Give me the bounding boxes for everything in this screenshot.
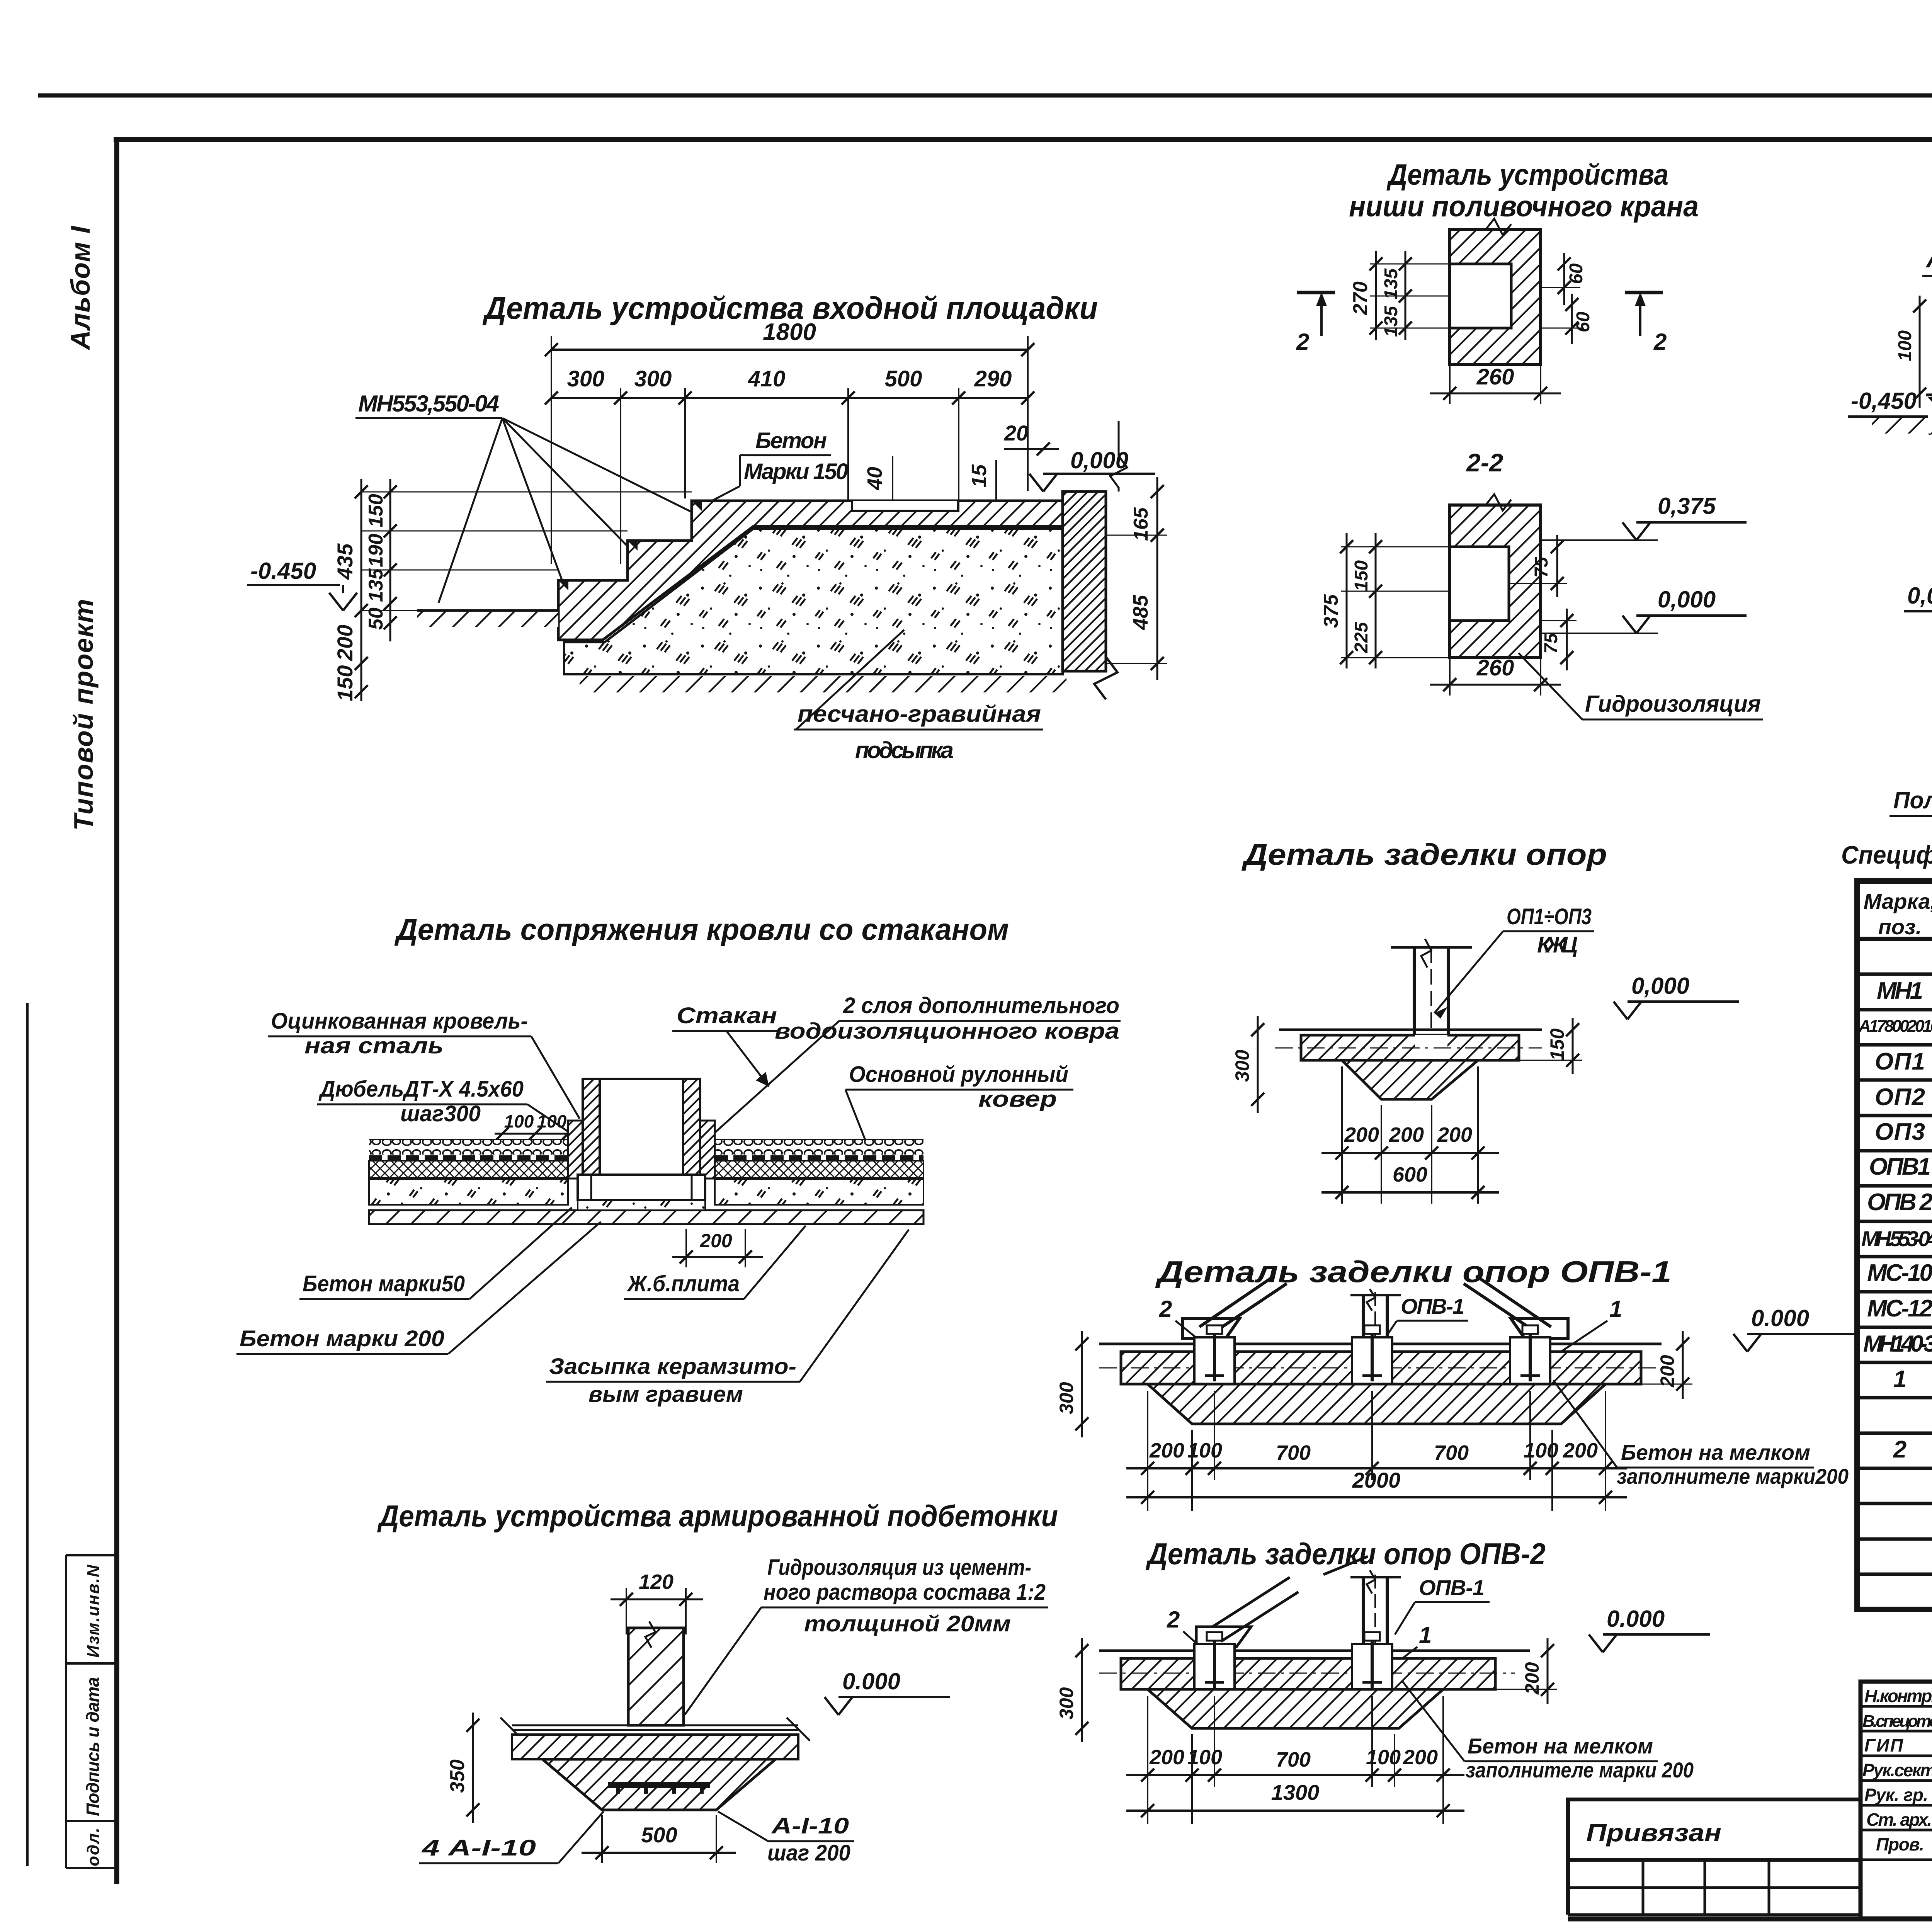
wall column (hatched) xyxy=(1063,492,1106,671)
level 0,000 xyxy=(1541,587,1747,633)
svg-text:350: 350 xyxy=(446,1759,469,1793)
svg-text:150: 150 xyxy=(1546,1028,1568,1061)
table grid xyxy=(1857,881,1932,1609)
svg-text:ДюбельДТ-Х 4.5х60: ДюбельДТ-Х 4.5х60 xyxy=(318,1077,524,1102)
svg-text:1: 1 xyxy=(1609,1296,1622,1322)
svg-text:Деталь заделки опор ОПВ-1: Деталь заделки опор ОПВ-1 xyxy=(1155,1255,1672,1289)
svg-text:1300: 1300 xyxy=(1271,1780,1320,1804)
label concrete grade 150 xyxy=(709,428,848,502)
plan right dims 60 60 xyxy=(1541,253,1594,344)
svg-text:ОПВ1: ОПВ1 xyxy=(1869,1153,1931,1180)
svg-text:-0,450: -0,450 xyxy=(1851,388,1917,414)
dim 300 left xyxy=(1056,1638,1088,1742)
slab band xyxy=(1121,1658,1495,1689)
bottom dim chain 200 100 700 100 200 xyxy=(1126,1696,1464,1824)
svg-text:МН553,550-04: МН553,550-04 xyxy=(358,391,499,417)
svg-text:ОПВ-1: ОПВ-1 xyxy=(1419,1575,1485,1600)
foundation trapezoid xyxy=(1148,1689,1443,1728)
svg-text:Ж.б.плита: Ж.б.плита xyxy=(626,1271,740,1296)
bottom dims 200 200 200 / 600 xyxy=(1321,1066,1499,1204)
dowel label xyxy=(317,1077,578,1138)
plan bottom dim 260 xyxy=(1430,364,1561,404)
svg-text:435: 435 xyxy=(333,543,357,580)
svg-text:2-2: 2-2 xyxy=(1466,448,1503,477)
niche plan: hatched wall block xyxy=(1450,230,1541,365)
svg-text:Бетон марки 200: Бетон марки 200 xyxy=(240,1326,444,1351)
label MN553,550-04 with leaders xyxy=(355,391,696,603)
waterproofing label xyxy=(1519,653,1763,719)
pocket trapezoid xyxy=(1342,1060,1478,1099)
reinforcement bar xyxy=(608,1782,710,1788)
dim 500 xyxy=(582,1815,736,1863)
4 A-I-10 label xyxy=(419,1811,604,1863)
svg-text:Рук.сект.: Рук.сект. xyxy=(1862,1760,1932,1780)
svg-text:200: 200 xyxy=(1149,1439,1184,1462)
svg-text:410: 410 xyxy=(748,366,786,391)
svg-text:Бетон: Бетон xyxy=(755,428,827,453)
concrete grade 50 label xyxy=(299,1207,572,1299)
svg-text:2 слоя дополнительного: 2 слоя дополнительного xyxy=(843,993,1119,1018)
main frame left xyxy=(114,137,119,1884)
svg-text:300: 300 xyxy=(1056,1382,1077,1414)
section arrows 2-2 (plan) xyxy=(1296,292,1667,355)
svg-text:ГИП: ГИП xyxy=(1864,1735,1903,1755)
compacted gravel wedge xyxy=(1930,389,1932,461)
anchor pockets with bolts xyxy=(1194,1632,1392,1693)
pit bottom hachure xyxy=(580,676,1066,692)
main frame bottom (under title block) xyxy=(1568,1917,1932,1922)
step anchor triangles xyxy=(558,501,702,590)
svg-text:Засыпка керамзито-: Засыпка керамзито- xyxy=(549,1354,796,1379)
dim 200 right xyxy=(1495,1638,1557,1704)
dim 100 left xyxy=(1895,296,1926,408)
svg-text:2: 2 xyxy=(1159,1296,1172,1322)
section left dims 375 / 150 225 xyxy=(1320,533,1450,668)
svg-text:вым гравием: вым гравием xyxy=(588,1382,743,1407)
svg-text:40: 40 xyxy=(863,467,886,490)
dim 300 left xyxy=(1231,1016,1264,1113)
svg-text:ОП3: ОП3 xyxy=(1875,1119,1925,1145)
svg-text:300: 300 xyxy=(567,366,605,391)
dim 200 under glass xyxy=(672,1229,763,1267)
left stamp column xyxy=(66,1555,117,1868)
svg-text:ОП2: ОП2 xyxy=(1875,1084,1925,1111)
bottom slab xyxy=(369,1210,923,1224)
svg-text:15: 15 xyxy=(968,464,991,488)
svg-text:Альбом I: Альбом I xyxy=(65,225,95,350)
svg-text:толщиной 20мм: толщиной 20мм xyxy=(804,1611,1011,1636)
svg-text:МН1: МН1 xyxy=(1877,978,1923,1004)
svg-text:700: 700 xyxy=(1276,1748,1311,1771)
svg-text:ниши поливочного крана: ниши поливочного крана xyxy=(1349,190,1699,223)
concrete note xyxy=(1553,1380,1849,1488)
svg-text:заполнителе марки200: заполнителе марки200 xyxy=(1617,1464,1849,1488)
dim 1800 xyxy=(545,319,1034,356)
floor of box label xyxy=(1889,714,1932,816)
anchor pockets with bolts xyxy=(1194,1325,1550,1386)
svg-text:заполнителе марки 200: заполнителе марки 200 xyxy=(1466,1758,1694,1782)
sandy gravel bedding label xyxy=(794,630,1043,763)
break line above wall xyxy=(1110,421,1127,492)
svg-text:120: 120 xyxy=(639,1570,673,1594)
svg-text:Основной рулонный: Основной рулонный xyxy=(849,1062,1068,1087)
svg-text:150: 150 xyxy=(333,665,357,701)
left brace xyxy=(1182,1276,1287,1338)
waterproofing cement note xyxy=(685,1555,1048,1715)
right brace xyxy=(1464,1276,1568,1338)
niche section 2-2: hatched block xyxy=(1450,505,1541,658)
svg-text:Деталь сопряжения кровли со ст: Деталь сопряжения кровли со стаканом xyxy=(394,912,1009,946)
svg-text:190: 190 xyxy=(365,534,387,567)
svg-text:300: 300 xyxy=(1056,1687,1077,1719)
svg-text:А178002010: А178002010 xyxy=(1858,1017,1932,1036)
svg-text:135: 135 xyxy=(1381,268,1401,299)
glass label xyxy=(672,1003,781,1087)
svg-text:165: 165 xyxy=(1130,507,1152,541)
svg-text:0.000: 0.000 xyxy=(1607,1606,1665,1632)
svg-text:шаг300: шаг300 xyxy=(400,1101,481,1126)
level 0,375 xyxy=(1541,493,1747,540)
svg-text:Изм.инв.N: Изм.инв.N xyxy=(84,1565,103,1658)
svg-text:100: 100 xyxy=(1895,330,1915,361)
svg-text:375: 375 xyxy=(1320,594,1342,628)
section right dims 75 75 xyxy=(1509,535,1577,670)
svg-text:Оцинкованная кровель-: Оцинкованная кровель- xyxy=(271,1009,528,1034)
expanded clay gravel backfill label xyxy=(546,1230,909,1407)
svg-text:135: 135 xyxy=(1381,306,1401,337)
svg-text:600: 600 xyxy=(1393,1163,1427,1186)
svg-text:0,000: 0,000 xyxy=(1070,447,1128,473)
svg-text:Гидроизоляция из цемент-: Гидроизоляция из цемент- xyxy=(767,1555,1031,1580)
svg-text:песчано-гравийная: песчано-гравийная xyxy=(798,701,1041,727)
sheet outer left border line xyxy=(26,1003,29,1866)
svg-text:Ст. арх.: Ст. арх. xyxy=(1866,1810,1932,1830)
svg-text:ковер: ковер xyxy=(978,1087,1057,1112)
svg-text:Деталь устройства армированн: Деталь устройства армированной подбетонк… xyxy=(377,1499,1058,1533)
svg-text:260: 260 xyxy=(1476,655,1514,680)
svg-text:подсыпка: подсыпка xyxy=(855,737,954,763)
foundation trapezoid xyxy=(543,1759,776,1810)
svg-text:100: 100 xyxy=(1187,1746,1222,1769)
svg-text:2: 2 xyxy=(1167,1607,1180,1633)
svg-text:Спецификация элементов, замарк: Спецификация элементов, замаркированных … xyxy=(1841,840,1932,869)
concrete stepped band (hatched) xyxy=(558,501,1063,640)
svg-text:Н.контр.: Н.контр. xyxy=(1864,1686,1932,1706)
svg-text:500: 500 xyxy=(641,1823,677,1847)
svg-text:2000: 2000 xyxy=(1352,1468,1401,1492)
svg-text:Привязан: Привязан xyxy=(1586,1819,1721,1847)
svg-text:МС-12: МС-12 xyxy=(1867,1295,1932,1322)
svg-text:270: 270 xyxy=(1349,281,1372,315)
svg-text:200: 200 xyxy=(1403,1746,1438,1769)
svg-text:одл.: одл. xyxy=(84,1828,103,1866)
callout OPV-1 xyxy=(1395,1575,1490,1634)
sub-concrete band xyxy=(512,1735,798,1759)
bottom dim chain 200 100 700 700 100 200 xyxy=(1126,1391,1627,1511)
niche opening (plan) xyxy=(1450,264,1511,328)
svg-text:Пров.: Пров. xyxy=(1876,1834,1924,1854)
svg-text:Подпись и дата: Подпись и дата xyxy=(83,1677,103,1816)
plan left dims 270 / 135 135 xyxy=(1349,251,1450,340)
svg-text:Гидроизоляция: Гидроизоляция xyxy=(1585,691,1761,717)
svg-text:225: 225 xyxy=(1351,622,1372,653)
sheet outer top border line xyxy=(38,94,1932,98)
svg-text:0,000: 0,000 xyxy=(1658,587,1716,612)
svg-text:300: 300 xyxy=(1231,1049,1253,1082)
svg-text:500: 500 xyxy=(885,366,922,391)
svg-text:Бетон на мелком: Бетон на мелком xyxy=(1621,1440,1810,1464)
A-I-10 step 200 label xyxy=(718,1811,854,1866)
roof layers right of glass xyxy=(715,1139,923,1205)
svg-text:0.000: 0.000 xyxy=(1751,1305,1809,1331)
svg-text:150: 150 xyxy=(365,494,387,527)
dim chain 300 300 410 500 290 xyxy=(545,336,1034,564)
recess notch on top surface xyxy=(852,501,958,511)
dim 350 xyxy=(446,1713,480,1823)
svg-text:75: 75 xyxy=(1541,633,1561,654)
svg-text:Бетон марки50: Бетон марки50 xyxy=(303,1271,465,1296)
svg-text:200: 200 xyxy=(1563,1439,1598,1462)
svg-text:А-I-10: А-I-10 xyxy=(771,1813,849,1838)
svg-text:200: 200 xyxy=(333,625,357,661)
svg-text:20: 20 xyxy=(1004,421,1028,445)
svg-text:Стакан: Стакан xyxy=(677,1003,777,1028)
svg-text:60: 60 xyxy=(1566,263,1587,284)
floor lines xyxy=(500,1718,810,1741)
svg-text:ОПВ 2: ОПВ 2 xyxy=(1867,1189,1932,1216)
2 layers additional waterproofing label xyxy=(710,993,1121,1137)
svg-text:ОПВ-1: ОПВ-1 xyxy=(1401,1294,1464,1318)
svg-text:260: 260 xyxy=(1476,364,1514,389)
svg-text:1800: 1800 xyxy=(763,319,816,345)
svg-text:Марка,: Марка, xyxy=(1864,889,1932,913)
svg-text:200: 200 xyxy=(1437,1123,1472,1146)
level 0.000 xyxy=(1733,1305,1855,1352)
slab band xyxy=(1121,1352,1641,1384)
svg-text:ного раствора состава 1:2: ного раствора состава 1:2 xyxy=(764,1580,1046,1605)
level mark -0.450 xyxy=(247,558,357,611)
svg-text:Бетон на мелком: Бетон на мелком xyxy=(1468,1734,1653,1758)
level mark 0,000 xyxy=(1029,447,1155,492)
svg-text:поз.: поз. xyxy=(1878,915,1922,939)
svg-text:100: 100 xyxy=(1366,1746,1401,1769)
column xyxy=(628,1621,684,1725)
signature table texts xyxy=(1862,1686,1932,1855)
svg-text:200: 200 xyxy=(1149,1746,1184,1769)
svg-text:150: 150 xyxy=(1351,560,1372,591)
svg-text:ОП1: ОП1 xyxy=(1875,1048,1925,1075)
svg-text:135: 135 xyxy=(365,568,387,602)
slab band xyxy=(1301,1035,1519,1060)
svg-text:2: 2 xyxy=(1653,329,1667,355)
foundation trapezoid xyxy=(1148,1384,1605,1424)
left brace xyxy=(1196,1556,1368,1647)
svg-text:МС-10: МС-10 xyxy=(1867,1260,1932,1286)
svg-text:75: 75 xyxy=(1531,556,1552,578)
svg-text:200: 200 xyxy=(1389,1123,1424,1146)
level 0.000 xyxy=(1589,1606,1710,1652)
level 0.000 xyxy=(825,1668,950,1715)
svg-text:200: 200 xyxy=(699,1230,732,1252)
svg-text:Марки 150: Марки 150 xyxy=(744,459,848,484)
svg-text:290: 290 xyxy=(974,366,1012,391)
svg-text:700: 700 xyxy=(1434,1441,1469,1464)
ramp asphalt surface xyxy=(1926,386,1932,395)
svg-text:0,000: 0,000 xyxy=(1907,583,1932,609)
level -0,450 xyxy=(1848,388,1932,434)
label OP1-OP3 / KZhTs xyxy=(1434,904,1594,1019)
gravel fill (speckled) xyxy=(564,529,1063,674)
dim 120 xyxy=(611,1570,703,1634)
svg-text:КЖЦ: КЖЦ xyxy=(1537,932,1578,957)
reinforced slab label xyxy=(624,1226,806,1299)
svg-text:700: 700 xyxy=(1276,1441,1311,1464)
svg-text:1: 1 xyxy=(1419,1622,1432,1648)
svg-text:-0.450: -0.450 xyxy=(250,558,316,584)
post xyxy=(1350,1289,1401,1352)
svg-text:200: 200 xyxy=(1344,1123,1379,1146)
asphalt coating label xyxy=(1922,246,1932,387)
dim 150 right xyxy=(1519,1018,1582,1074)
svg-text:Деталь устройства: Деталь устройства xyxy=(1386,158,1668,191)
svg-text:300: 300 xyxy=(634,366,672,391)
callout OPV-1 xyxy=(1383,1294,1468,1341)
galvanized roofing steel label xyxy=(268,1009,580,1119)
svg-text:Пол бокса: Пол бокса xyxy=(1893,787,1932,814)
dims 100 100 xyxy=(495,1111,576,1140)
svg-text:100: 100 xyxy=(1524,1439,1558,1462)
main frame top xyxy=(114,137,1932,142)
ground line left xyxy=(417,609,560,612)
svg-text:0.000: 0.000 xyxy=(842,1668,900,1694)
svg-text:Деталь заделки опор: Деталь заделки опор xyxy=(1241,837,1607,871)
svg-text:ОП1÷ОП3: ОП1÷ОП3 xyxy=(1507,904,1592,929)
"Привязан" box and grid xyxy=(1568,1799,1861,1915)
post xyxy=(1350,1570,1401,1660)
svg-text:Типовой проект: Типовой проект xyxy=(68,599,99,831)
svg-text:2: 2 xyxy=(1893,1436,1906,1463)
svg-text:60: 60 xyxy=(1573,311,1594,332)
svg-text:ная сталь: ная сталь xyxy=(304,1033,444,1058)
dim 200 right xyxy=(1641,1331,1692,1399)
title block outer frame xyxy=(1861,1682,1932,1919)
svg-text:Рук. гр.: Рук. гр. xyxy=(1864,1785,1928,1805)
roof layers left of glass xyxy=(369,1139,568,1205)
left vertical dim chains xyxy=(333,479,692,701)
right vertical dims 165 / 485 xyxy=(1106,477,1167,680)
concrete grade 200 label xyxy=(236,1222,601,1354)
level 0,000 xyxy=(1904,583,1932,629)
section bottom dim 260 xyxy=(1430,655,1561,696)
header texts xyxy=(1864,889,1932,939)
svg-text:0,375: 0,375 xyxy=(1658,493,1716,519)
svg-text:МН140-3: МН140-3 xyxy=(1863,1331,1932,1357)
svg-text:МН.553-04: МН.553-04 xyxy=(1861,1226,1932,1251)
svg-text:485: 485 xyxy=(1129,595,1152,630)
main roll carpet label xyxy=(845,1062,1073,1141)
svg-text:2: 2 xyxy=(1296,329,1309,355)
steel post xyxy=(1391,939,1472,1063)
dim 300 left xyxy=(1056,1331,1088,1437)
svg-text:100: 100 xyxy=(1187,1439,1222,1462)
level 0,000 xyxy=(1614,973,1739,1019)
break mark on top xyxy=(1486,219,1511,235)
svg-text:Асфальтовое покрытие-40: Асфальтовое покрытие-40 xyxy=(1925,246,1932,273)
concrete note xyxy=(1403,1682,1694,1782)
svg-text:1: 1 xyxy=(1893,1366,1906,1393)
svg-text:4 А-I-10: 4 А-I-10 xyxy=(422,1835,536,1861)
glass walls xyxy=(568,1079,715,1210)
svg-text:шаг 200: шаг 200 xyxy=(767,1840,850,1866)
svg-text:0,000: 0,000 xyxy=(1631,973,1689,999)
svg-text:В.спецотд: В.спецотд xyxy=(1862,1712,1932,1731)
svg-text:200: 200 xyxy=(1656,1355,1678,1388)
signature table grid xyxy=(1861,1682,1932,1860)
